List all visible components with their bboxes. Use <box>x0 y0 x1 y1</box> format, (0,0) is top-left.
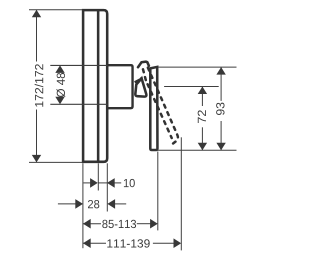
dim 28 right tail <box>115 203 127 205</box>
lever top cap hook <box>138 62 149 68</box>
arrow 93 up <box>216 67 225 75</box>
arrow 10 pointing right <box>90 178 98 188</box>
dim line 72 lower seg <box>201 127 203 150</box>
label 93 <box>216 103 224 115</box>
dashed lever front edge <box>148 84 172 138</box>
dia48 ext line top <box>50 64 107 66</box>
label 172/172 <box>35 64 44 107</box>
arrow dia48 down <box>55 97 64 105</box>
dim 10 mid seg <box>98 182 107 184</box>
arrow 85-113 pointing left <box>83 219 91 229</box>
escutcheon plate outline <box>83 10 107 162</box>
dim 28 left tail <box>58 203 76 205</box>
dim 10 left tail <box>83 182 90 184</box>
dim 10 right tail <box>115 182 122 184</box>
dashed lever back edge <box>148 68 178 146</box>
arrow 72 up <box>198 87 207 95</box>
sleeve flange outline <box>107 65 132 108</box>
dim line 93 lower seg <box>220 121 222 150</box>
dim 111-139 line left <box>83 242 106 244</box>
dim line 72 upper seg <box>201 87 203 107</box>
right ext bottom ref <box>158 149 237 151</box>
label 10 <box>124 179 135 187</box>
bottom ext line x98 <box>97 163 99 190</box>
pivot boss <box>135 77 147 96</box>
dim line 172/172 upper seg <box>36 10 38 62</box>
arrow 111-139 pointing left <box>83 238 91 248</box>
ext line 172 bottom <box>29 161 83 163</box>
arrow 172 up <box>32 10 41 18</box>
right ext mid (72) <box>164 86 219 88</box>
dim 85-113 line right <box>137 223 151 225</box>
label 28 <box>88 200 99 208</box>
bottom ext line x181 <box>180 137 182 250</box>
bottom ext line x83 <box>82 163 84 248</box>
arrow 28 pointing right <box>75 199 83 209</box>
dashed rotation arc <box>143 69 146 82</box>
bottom ext line x158 <box>157 152 159 231</box>
arrow 172 down <box>32 155 41 163</box>
label dia 48 <box>56 73 65 97</box>
right ext top (93) <box>158 66 237 68</box>
dia48 ext line bottom <box>50 103 107 105</box>
arrow 111-139 pointing right <box>174 238 182 248</box>
label 111-139 <box>107 239 149 247</box>
arrow 93 down <box>216 143 225 151</box>
dim line 172/172 lower seg <box>36 110 38 163</box>
arrow 72 down <box>198 143 207 151</box>
arrow 85-113 pointing right <box>150 219 158 229</box>
bottom ext line x107 <box>106 163 108 211</box>
dim 111-139 line right <box>153 242 174 244</box>
ext line 172 top <box>29 9 83 11</box>
arrow dia48 up <box>55 65 64 73</box>
dim 85-113 line left <box>83 223 101 225</box>
label 72 <box>198 110 206 123</box>
label 85-113 <box>102 220 136 228</box>
dim line 93 upper seg <box>220 67 222 101</box>
arrow 10 pointing left <box>107 178 115 188</box>
plate middle line <box>97 9 100 163</box>
solid lever handle <box>150 67 157 150</box>
arrow 28 pointing left <box>107 199 115 209</box>
